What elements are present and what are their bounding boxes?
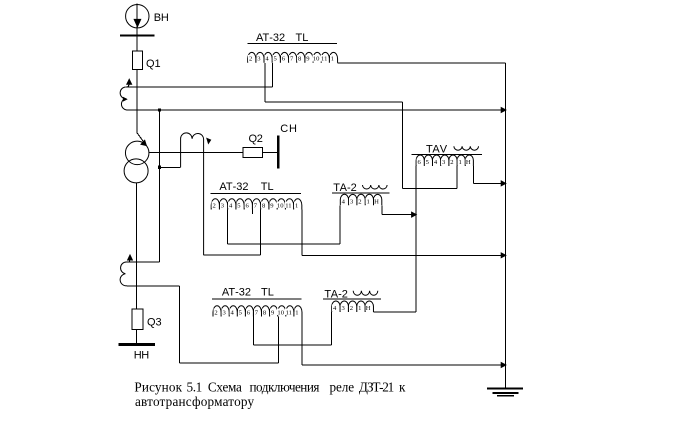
svg-text:1: 1 [358,305,361,312]
svg-text:10: 10 [277,309,284,316]
svg-text:11: 11 [321,56,327,63]
svg-text:ТАV: ТАV [426,143,448,155]
svg-text:TL: TL [296,32,309,44]
svg-text:АТ-32: АТ-32 [219,181,248,193]
svg-text:1: 1 [295,309,298,316]
svg-text:2: 2 [350,305,353,312]
svg-text:11: 11 [286,309,292,316]
svg-text:1: 1 [367,198,370,205]
svg-text:2: 2 [213,202,216,209]
svg-text:2: 2 [249,56,252,63]
svg-text:Н: Н [466,159,471,166]
svg-text:10: 10 [277,202,284,209]
svg-text:ВН: ВН [154,12,169,24]
svg-text:Н: Н [374,198,379,205]
svg-text:АТ-32: АТ-32 [256,32,285,44]
svg-text:СН: СН [280,123,298,135]
svg-text:2: 2 [358,198,361,205]
svg-text:Q1: Q1 [146,58,161,70]
svg-text:2: 2 [214,309,217,316]
svg-text:1: 1 [295,202,298,209]
svg-text:Рисунок5.1Схемаподключенияреле: Рисунок5.1СхемаподключениярелеДЗТ-21к [134,379,406,394]
svg-text:11: 11 [285,202,291,209]
svg-text:Q3: Q3 [147,317,162,329]
svg-text:TL: TL [261,181,274,193]
svg-text:1: 1 [331,56,334,63]
svg-text:Н: Н [366,305,371,312]
svg-text:автотрансформатору: автотрансформатору [135,394,255,409]
svg-text:НН: НН [134,350,150,362]
svg-text:Q2: Q2 [249,133,263,145]
svg-text:АТ-32: АТ-32 [222,287,251,299]
svg-text:10: 10 [313,56,320,63]
svg-text:1: 1 [458,159,461,166]
svg-text:TL: TL [261,287,274,299]
svg-text:2: 2 [450,159,453,166]
svg-text:ТА-2: ТА-2 [333,182,356,194]
